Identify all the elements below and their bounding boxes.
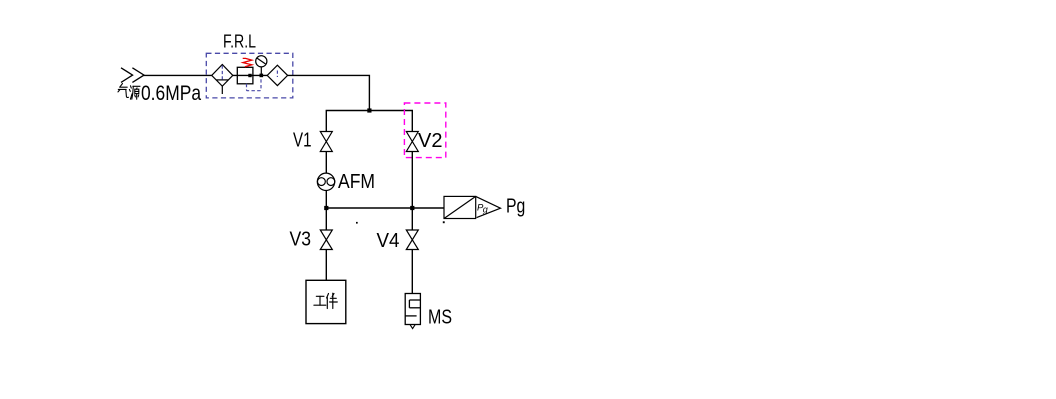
pressure gauge on F.R.L: [256, 56, 267, 76]
lubricator dashed element: [276, 71, 278, 78]
filter dashed element: [221, 66, 223, 80]
label 气源 (air source): [118, 84, 140, 100]
svg-text:Pg: Pg: [506, 196, 525, 218]
svg-text:MS: MS: [428, 307, 452, 329]
workpiece box: [306, 280, 346, 323]
pressure sensor Pg: [444, 196, 501, 218]
wire manifold header: [326, 111, 412, 132]
svg-text:V2: V2: [418, 130, 443, 152]
valve V3: [320, 230, 332, 250]
svg-text:V3: V3: [290, 229, 312, 251]
svg-text:g: g: [483, 204, 488, 214]
filter F: [212, 65, 233, 95]
node T junction: [367, 108, 371, 112]
valve V2: [406, 132, 418, 152]
regulator spring (red): [243, 58, 252, 66]
node on regulator output: [248, 74, 251, 77]
label 工件 (workpiece): [314, 293, 337, 308]
wire regulator to lubricator: [250, 74, 267, 76]
wire AFM to junction: [325, 191, 327, 209]
wire junction to V4: [411, 208, 413, 230]
wire junction to V3: [325, 208, 327, 230]
svg-text:V1: V1: [293, 130, 312, 152]
svg-text:0.6MPa: 0.6MPa: [141, 82, 201, 105]
air source symbol: [121, 68, 144, 83]
svg-text:AFM: AFM: [338, 171, 375, 193]
node right junction: [410, 206, 414, 210]
valve V1: [320, 132, 332, 152]
stray dot left: [356, 222, 358, 224]
V2 dashed highlight box (magenta): [404, 103, 445, 158]
node left junction: [324, 206, 328, 210]
wire junction row to gauge Pg: [326, 207, 444, 209]
node gauge junction: [260, 74, 264, 78]
wire V3 to workpiece: [325, 250, 327, 281]
regulator R: [237, 67, 253, 84]
stray dot right: [443, 221, 445, 223]
wire filter to regulator: [233, 74, 250, 76]
flow meter AFM: [317, 173, 335, 190]
wire source to filter: [144, 74, 212, 76]
wire V1 to AFM: [325, 152, 327, 174]
valve V4: [406, 230, 418, 250]
wire V2 to junction: [411, 152, 413, 209]
svg-text:V4: V4: [377, 230, 400, 252]
wire V4 to muffler: [411, 250, 413, 294]
wire F.R.L output to corner: [288, 75, 370, 110]
muffler MS: [405, 294, 420, 329]
F.R.L dashed enclosure: [206, 53, 292, 98]
regulator pilot dashed line: [247, 77, 262, 91]
lubricator L: [267, 65, 287, 85]
svg-text:F.R.L: F.R.L: [223, 32, 256, 52]
